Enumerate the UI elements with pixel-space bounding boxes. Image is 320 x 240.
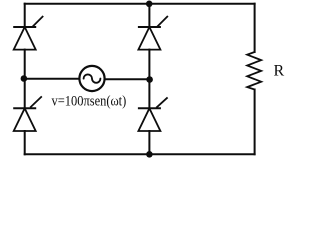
svg-text:R: R: [274, 63, 285, 80]
svg-text:v=100πsen(ωt): v=100πsen(ωt): [52, 94, 127, 110]
